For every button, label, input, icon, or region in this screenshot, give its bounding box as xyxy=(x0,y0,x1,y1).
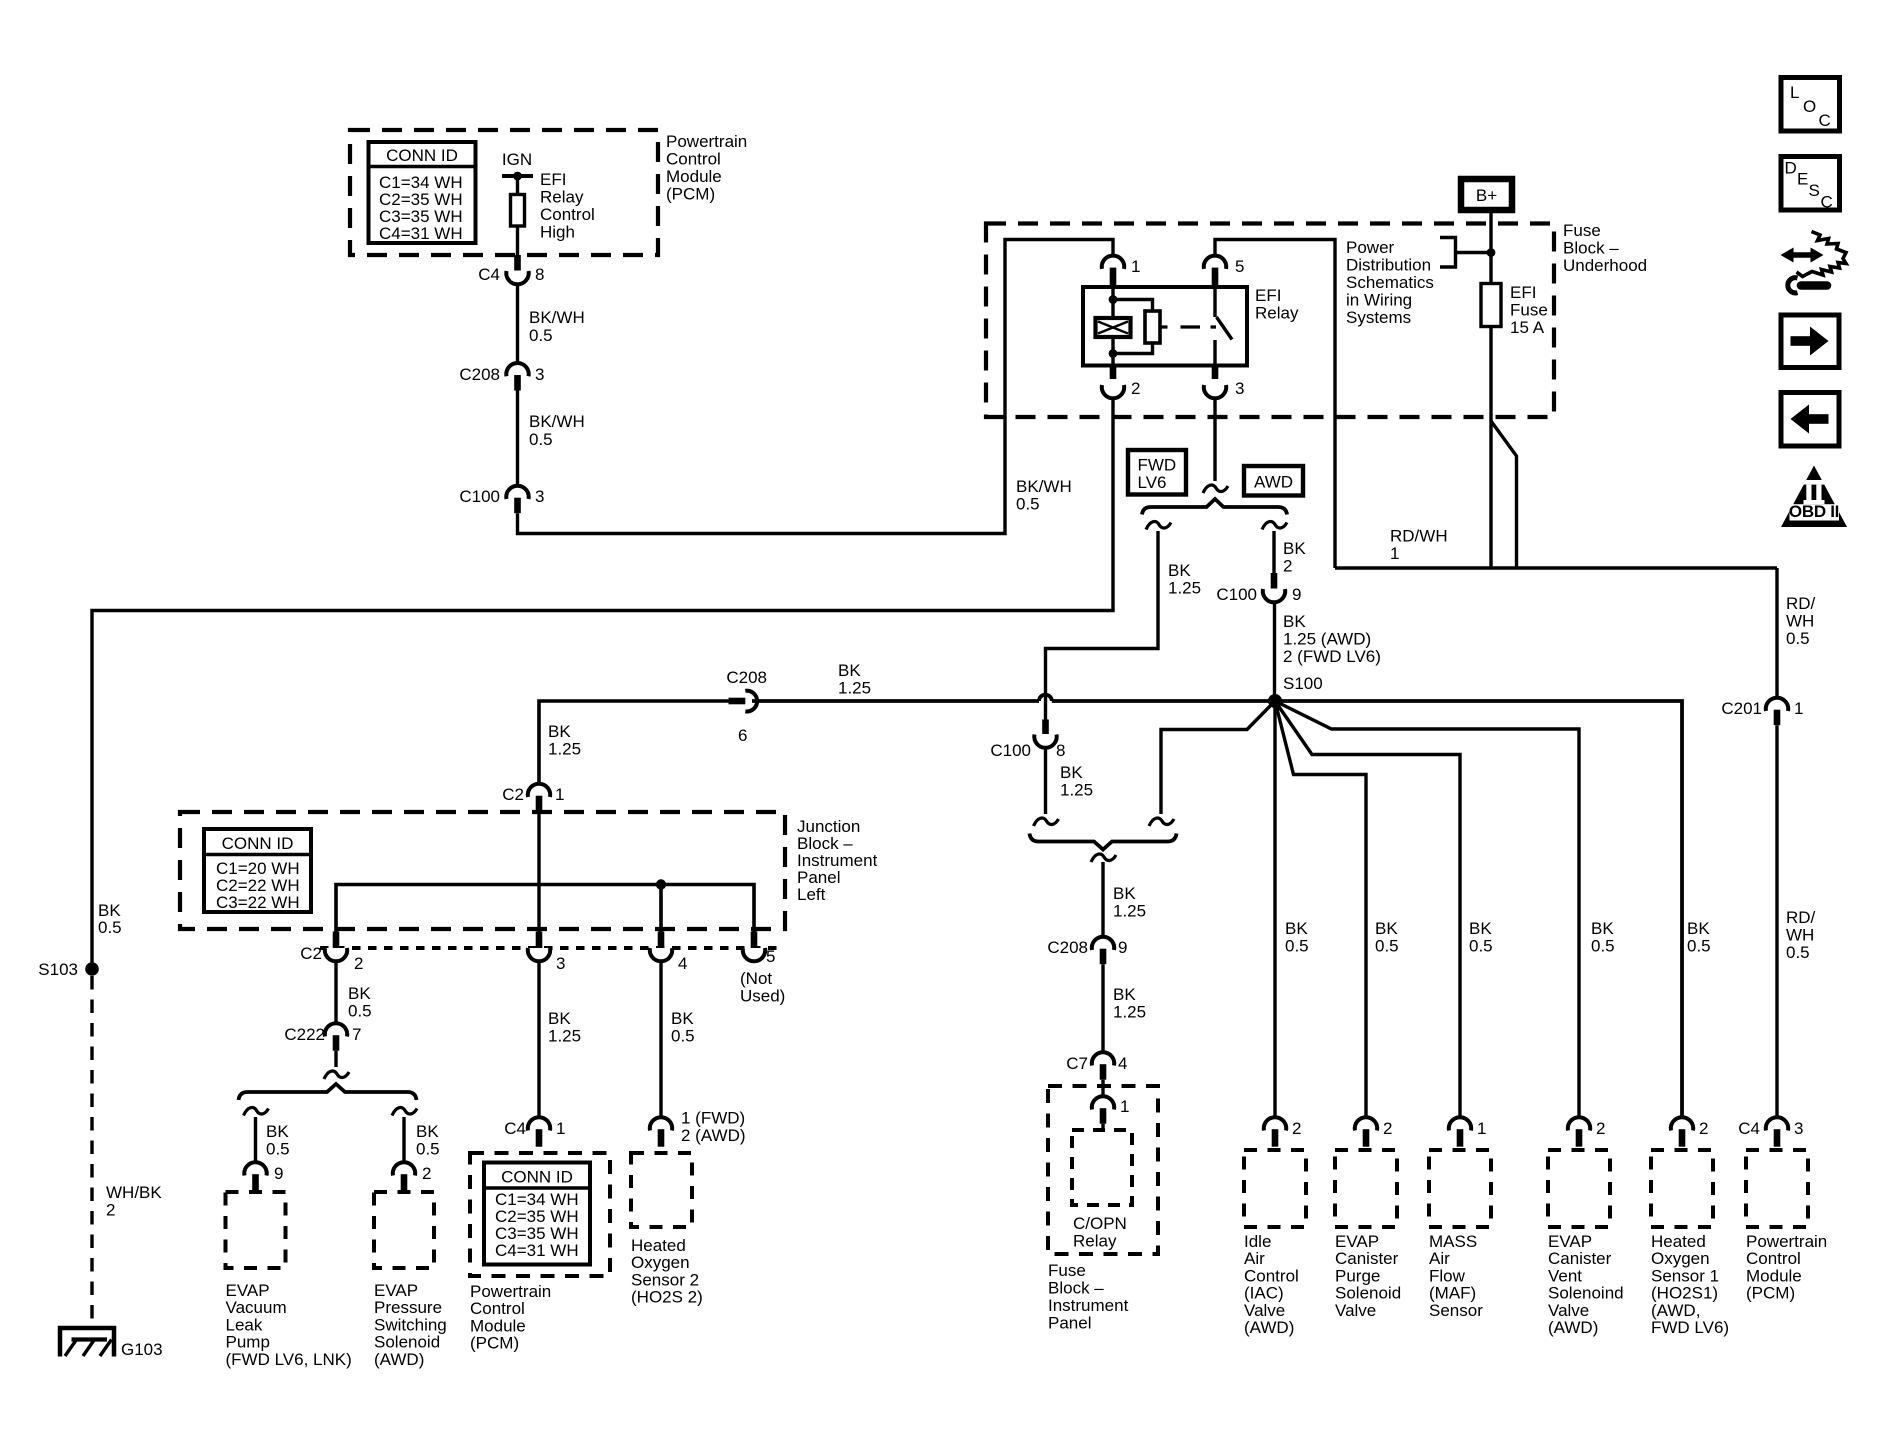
svg-text:Module: Module xyxy=(470,1316,526,1335)
svg-text:1.25: 1.25 xyxy=(838,679,871,698)
brace splitting C222 wire xyxy=(239,1084,417,1100)
svg-text:EVAP: EVAP xyxy=(1548,1232,1592,1251)
wire BK 0.5 (C2-2 to C222-7) xyxy=(336,961,372,1023)
connector C2 pin 5 (not used) xyxy=(740,947,785,1006)
brace merging to C208-9 xyxy=(1030,834,1177,850)
svg-text:Control: Control xyxy=(1244,1266,1299,1285)
svg-text:(HO2S1): (HO2S1) xyxy=(1651,1284,1718,1303)
svg-text:9: 9 xyxy=(1292,585,1301,604)
svg-text:0.5: 0.5 xyxy=(1687,937,1711,956)
svg-text:3: 3 xyxy=(556,954,565,973)
wire RD/WH 1 (fuse to relay pin 5) xyxy=(1215,240,1777,569)
svg-text:0.5: 0.5 xyxy=(1375,937,1399,956)
hook right EVAP branch xyxy=(392,1108,417,1116)
svg-text:(MAF): (MAF) xyxy=(1429,1284,1476,1303)
svg-text:C4: C4 xyxy=(478,265,500,284)
svg-text:S103: S103 xyxy=(38,960,78,979)
connector pin 2 (IAC) xyxy=(1264,1117,1302,1147)
connector C4 pin 8 xyxy=(478,255,544,284)
svg-text:Vacuum: Vacuum xyxy=(226,1298,287,1317)
svg-text:Idle: Idle xyxy=(1244,1232,1271,1251)
connector C201 pin 1 xyxy=(1721,698,1803,726)
svg-text:1: 1 xyxy=(556,1119,565,1138)
connector pin 2 (EVAP pressure) xyxy=(393,1162,432,1191)
wire BK 1.25 main bus (C208-6 to S100 to HO2S1) with hop over C100-8 drop xyxy=(752,695,1682,1118)
icon LOC button xyxy=(1781,78,1840,132)
icon OBD II badge xyxy=(1781,466,1847,528)
svg-text:L: L xyxy=(1790,83,1799,102)
svg-text:EFI: EFI xyxy=(1510,283,1536,302)
svg-text:(PCM): (PCM) xyxy=(666,185,715,204)
svg-text:Canister: Canister xyxy=(1548,1249,1612,1268)
svg-text:Panel: Panel xyxy=(1048,1314,1091,1333)
wire BK 2 (AWD branch to C100-9) xyxy=(1274,531,1306,576)
wire BK 1.25(AWD)/2(FWD LV6) to S100 xyxy=(1275,603,1381,702)
svg-text:1.25: 1.25 xyxy=(1113,1003,1146,1022)
connector C4 pin 1 (PCM) xyxy=(504,1117,565,1147)
svg-text:Leak: Leak xyxy=(226,1315,263,1334)
EVAP Canister Vent Solenoid Valve box xyxy=(1548,1150,1624,1337)
wire BK 0.5 (S100 to IAC valve) xyxy=(1273,701,1276,1117)
svg-text:Purge: Purge xyxy=(1335,1266,1380,1285)
svg-text:Air: Air xyxy=(1244,1249,1265,1268)
CONN ID table (PCM bottom) xyxy=(484,1163,590,1265)
connector C7 pin 4 xyxy=(1066,1052,1127,1080)
svg-text:FWD: FWD xyxy=(1138,456,1177,475)
svg-text:8: 8 xyxy=(1056,741,1065,760)
label RD/ WH 0.5 (upper) xyxy=(1786,594,1816,648)
connector C2 pin 4 xyxy=(650,948,688,973)
svg-text:1.25: 1.25 xyxy=(1168,579,1201,598)
wire RD/WH 0.5 (C201 to PCM C4-3) xyxy=(1777,725,1816,1117)
svg-text:Sensor 1: Sensor 1 xyxy=(1651,1266,1719,1285)
svg-text:C222: C222 xyxy=(284,1025,325,1044)
svg-text:2: 2 xyxy=(1283,557,1292,576)
wire into C/OPN relay xyxy=(1101,1124,1104,1130)
CONN ID table (junction block) xyxy=(204,829,311,912)
relay pin 2 connector xyxy=(1102,365,1141,398)
hook FWD branch xyxy=(1146,522,1171,530)
svg-text:1.25: 1.25 xyxy=(548,740,581,759)
label BK 0.5 (MAF wire) xyxy=(1469,919,1493,956)
svg-text:Control: Control xyxy=(470,1299,525,1318)
svg-text:Underhood: Underhood xyxy=(1563,256,1647,275)
svg-text:1.25: 1.25 xyxy=(1113,902,1146,921)
pin stub C2-4 xyxy=(658,932,665,949)
fuse EFI Fuse 15 A xyxy=(1481,283,1548,337)
wire BK 0.5 (C2-4 to HO2S2) xyxy=(661,961,695,1117)
svg-text:2: 2 xyxy=(1292,1119,1301,1138)
junction block bus xyxy=(336,885,754,933)
svg-text:Fuse: Fuse xyxy=(1510,301,1548,320)
svg-text:WH: WH xyxy=(1786,612,1814,631)
svg-text:BK: BK xyxy=(266,1122,289,1141)
label BK/WH 0.5 (relay pin1 wire) xyxy=(1016,477,1072,514)
svg-text:BK: BK xyxy=(1113,884,1136,903)
svg-text:9: 9 xyxy=(274,1164,283,1183)
Junction Block Instrument Panel Left box xyxy=(180,812,878,929)
connector C100 pin 3 xyxy=(459,486,544,514)
connector 1(FWD)/2(AWD) (HO2S2) xyxy=(650,1109,746,1147)
Heated Oxygen Sensor 2 box xyxy=(631,1153,703,1307)
svg-text:Heated: Heated xyxy=(631,1236,686,1255)
svg-text:2: 2 xyxy=(106,1201,115,1220)
wire BK/WH 0.5 (C208-3 to C100-3) xyxy=(518,391,585,486)
svg-text:0.5: 0.5 xyxy=(1786,629,1810,648)
svg-text:2 (FWD LV6): 2 (FWD LV6) xyxy=(1283,647,1381,666)
svg-text:5: 5 xyxy=(1235,257,1244,276)
svg-text:C4: C4 xyxy=(504,1119,526,1138)
svg-text:BK: BK xyxy=(1168,561,1191,580)
svg-text:E: E xyxy=(1797,170,1808,189)
svg-text:0.5: 0.5 xyxy=(1016,495,1040,514)
svg-text:(Not: (Not xyxy=(740,969,772,988)
svg-text:(IAC): (IAC) xyxy=(1244,1284,1284,1303)
svg-text:RD/: RD/ xyxy=(1786,908,1816,927)
svg-text:High: High xyxy=(540,223,575,242)
svg-text:(HO2S 2): (HO2S 2) xyxy=(631,1288,703,1307)
EVAP Canister Purge Solenoid Valve box xyxy=(1335,1150,1401,1320)
svg-text:0.5: 0.5 xyxy=(416,1140,440,1159)
svg-text:Relay: Relay xyxy=(1073,1232,1117,1251)
svg-text:15 A: 15 A xyxy=(1510,318,1545,337)
CONN ID table (PCM top) xyxy=(369,142,476,243)
connector C2 pin 1 xyxy=(502,784,564,812)
svg-text:6: 6 xyxy=(738,726,747,745)
RELAY-SECTION xyxy=(539,661,1827,1337)
MASS Air Flow sensor box xyxy=(1429,1150,1491,1320)
svg-text:B+: B+ xyxy=(1476,186,1497,205)
svg-text:Powertrain: Powertrain xyxy=(470,1282,551,1301)
icon forward arrow button xyxy=(1781,315,1839,368)
Powertrain Control Module box (bottom middle) xyxy=(470,1153,610,1276)
svg-text:(PCM): (PCM) xyxy=(1746,1284,1795,1303)
svg-text:Relay: Relay xyxy=(540,188,584,207)
ground G103 xyxy=(60,1328,163,1359)
svg-text:BK: BK xyxy=(548,722,571,741)
svg-text:Left: Left xyxy=(797,885,826,904)
splice S100 xyxy=(1268,674,1323,708)
svg-text:LV6: LV6 xyxy=(1138,473,1167,492)
svg-text:Solenoind: Solenoind xyxy=(1548,1284,1624,1303)
AWD tag box xyxy=(1244,466,1303,496)
brace splitting pin3 wire (FWD/AWD) xyxy=(1142,499,1287,515)
svg-text:(FWD LV6, LNK): (FWD LV6, LNK) xyxy=(226,1350,352,1369)
svg-text:O: O xyxy=(1803,97,1816,116)
svg-text:Switching: Switching xyxy=(374,1315,447,1334)
wire WH/BK 2 (S103 to G103, dashed) xyxy=(92,976,162,1330)
pin stub C2-3 xyxy=(536,932,543,949)
svg-text:Solenoid: Solenoid xyxy=(374,1333,440,1352)
svg-text:Block –: Block – xyxy=(1048,1279,1104,1298)
hook above brace xyxy=(324,1071,349,1079)
svg-text:S: S xyxy=(1809,181,1820,200)
connector C2 pin 3 xyxy=(528,948,566,973)
icon back arrow button xyxy=(1781,393,1839,447)
EVAP Pressure Switching Solenoid box xyxy=(374,1192,447,1369)
splice S103 xyxy=(38,960,99,979)
FWD LV6 tag box xyxy=(1128,450,1186,495)
wire BK 1.25 (C2-3 to PCM C4-1) xyxy=(539,961,581,1117)
svg-text:0.5: 0.5 xyxy=(1591,937,1615,956)
svg-text:0.5: 0.5 xyxy=(98,918,122,937)
svg-text:3: 3 xyxy=(1235,379,1244,398)
wire BK 0.5 (to EVAP pressure solenoid) xyxy=(404,1117,440,1162)
wire IGN to resistor xyxy=(516,176,519,195)
svg-text:EVAP: EVAP xyxy=(226,1281,270,1300)
svg-text:C4=31 WH: C4=31 WH xyxy=(379,224,463,243)
C/OPN Relay inner box xyxy=(1072,1130,1132,1251)
svg-text:C/OPN: C/OPN xyxy=(1073,1214,1127,1233)
svg-text:0.5: 0.5 xyxy=(348,1002,372,1021)
svg-text:BK: BK xyxy=(1113,985,1136,1004)
svg-text:C100: C100 xyxy=(1216,585,1257,604)
svg-text:C100: C100 xyxy=(990,741,1031,760)
svg-text:Distribution: Distribution xyxy=(1346,256,1431,275)
connector pin 2 (EVAP purge) xyxy=(1355,1117,1393,1147)
svg-text:(AWD): (AWD) xyxy=(1548,1318,1598,1337)
svg-text:Air: Air xyxy=(1429,1249,1450,1268)
svg-text:0.5: 0.5 xyxy=(529,430,553,449)
svg-text:MASS: MASS xyxy=(1429,1232,1477,1251)
label Powertrain Control Module (PCM) bottom xyxy=(470,1282,551,1353)
svg-text:0.5: 0.5 xyxy=(1469,937,1493,956)
svg-text:Used): Used) xyxy=(740,987,785,1006)
svg-text:Instrument: Instrument xyxy=(1048,1296,1129,1315)
svg-text:1.25 (AWD): 1.25 (AWD) xyxy=(1283,630,1371,649)
svg-text:Fuse: Fuse xyxy=(1048,1261,1086,1280)
svg-text:5: 5 xyxy=(766,947,775,966)
svg-text:1: 1 xyxy=(1120,1097,1129,1116)
Fuse Block Instrument Panel box xyxy=(1048,1086,1158,1254)
connector C222 pin 7 xyxy=(284,1023,361,1051)
svg-text:3: 3 xyxy=(535,487,544,506)
svg-text:(AWD,: (AWD, xyxy=(1651,1301,1700,1320)
EVAP Vacuum Leak Pump box xyxy=(226,1192,352,1369)
svg-text:FWD LV6): FWD LV6) xyxy=(1651,1318,1729,1337)
connector C100 pin 8 xyxy=(990,720,1065,761)
svg-text:C208: C208 xyxy=(459,365,500,384)
wire BK 0.5 (S100 to EVAP vent solenoid) xyxy=(1275,701,1579,1117)
svg-text:Sensor: Sensor xyxy=(1429,1301,1483,1320)
relay pin 5 connector xyxy=(1204,256,1245,288)
wire B+ to fuse xyxy=(1489,212,1492,284)
label BK 0.5 (vent wire) xyxy=(1591,919,1615,956)
svg-text:2 (AWD): 2 (AWD) xyxy=(681,1126,746,1145)
relay pin 1 connector xyxy=(1102,256,1141,288)
svg-text:1: 1 xyxy=(1390,544,1399,563)
svg-text:3: 3 xyxy=(1794,1119,1803,1138)
svg-text:4: 4 xyxy=(678,954,687,973)
connector pin 2 (HO2S1) xyxy=(1671,1117,1709,1147)
label Fuse Block Instrument Panel xyxy=(1048,1261,1129,1333)
connector face row (dotted) xyxy=(320,946,778,950)
Idle Air Control valve box xyxy=(1244,1150,1306,1337)
relay switch (internal) xyxy=(1215,287,1232,365)
svg-text:BK: BK xyxy=(1283,612,1306,631)
connector C100 pin 9 xyxy=(1216,573,1301,604)
icon DESC button xyxy=(1781,157,1840,212)
wire BK (S100 to lower brace right arm) xyxy=(1161,701,1275,814)
svg-text:0.5: 0.5 xyxy=(1285,937,1309,956)
svg-text:BK: BK xyxy=(1283,539,1306,558)
svg-text:0.5: 0.5 xyxy=(529,326,553,345)
svg-text:Powertrain: Powertrain xyxy=(666,132,747,151)
svg-text:Power: Power xyxy=(1346,238,1395,257)
wire BK (junction C2-1 corner to C208-6) xyxy=(539,701,729,784)
svg-text:EFI: EFI xyxy=(540,170,566,189)
label BK 0.5 (IAC wire) xyxy=(1285,919,1309,956)
junction dot at B+ feed xyxy=(1487,248,1496,257)
bracket to power distribution xyxy=(1440,238,1491,268)
connector pin 9 (EVAP pump) xyxy=(244,1162,283,1191)
label Powertrain Control Module (PCM) xyxy=(666,132,747,204)
svg-text:9: 9 xyxy=(1118,938,1127,957)
svg-text:C4: C4 xyxy=(1738,1119,1760,1138)
Heated Oxygen Sensor 1 box xyxy=(1651,1150,1729,1337)
connector pin 2 (EVAP vent) xyxy=(1568,1117,1606,1147)
connector C208 pin 6 (horizontal) xyxy=(726,668,767,745)
svg-text:BK: BK xyxy=(1285,919,1308,938)
label BK 0.5 (purge wire) xyxy=(1375,919,1399,956)
svg-text:Valve: Valve xyxy=(1335,1301,1376,1320)
svg-text:2: 2 xyxy=(422,1164,431,1183)
connector C2 pin 2 xyxy=(300,944,363,973)
svg-text:C4=31 WH: C4=31 WH xyxy=(495,1241,579,1260)
svg-text:RD/: RD/ xyxy=(1786,594,1816,613)
connector C208 pin 3 xyxy=(459,363,544,391)
icon schematic navigation (arrows and wrench) xyxy=(1781,232,1847,293)
wire BK/WH 0.5 (relay pin 2 to S103) xyxy=(92,399,1113,963)
label BK 1.25 (C2-1 riser) xyxy=(548,722,581,759)
svg-text:G103: G103 xyxy=(121,1340,163,1359)
svg-text:Fuse: Fuse xyxy=(1563,221,1601,240)
hook left EVAP branch xyxy=(244,1108,269,1116)
hook left arm xyxy=(1034,818,1059,826)
resistor EFI Relay Control High (inside PCM) xyxy=(511,195,525,227)
node IGN xyxy=(502,150,533,180)
EFI Relay box xyxy=(1083,286,1299,366)
svg-text:Systems: Systems xyxy=(1346,308,1411,327)
svg-text:BK: BK xyxy=(1469,919,1492,938)
svg-text:(AWD): (AWD) xyxy=(374,1350,424,1369)
svg-text:C3=22 WH: C3=22 WH xyxy=(216,893,300,912)
wire BK/WH 0.5 (C100-3 to EFI relay pin 1) xyxy=(518,240,1114,534)
svg-text:1.25: 1.25 xyxy=(548,1027,581,1046)
svg-text:BK: BK xyxy=(348,984,371,1003)
wire RD/WH 0.5 branch (fuse to C201) xyxy=(1491,421,1777,698)
svg-text:7: 7 xyxy=(352,1025,361,1044)
svg-text:0.5: 0.5 xyxy=(671,1027,695,1046)
hook at pin3 wire end xyxy=(1203,485,1228,493)
svg-text:C: C xyxy=(1821,193,1833,212)
svg-text:Vent: Vent xyxy=(1548,1266,1582,1285)
wire BK 1.25 (C100-8 to lower brace left arm) xyxy=(1046,748,1094,814)
svg-text:(PCM): (PCM) xyxy=(470,1334,519,1353)
svg-text:D: D xyxy=(1785,159,1797,178)
FAN-SECTION xyxy=(1781,78,1848,528)
wire BK 1.25 (brace to C208-9) xyxy=(1103,862,1146,937)
svg-text:Pump: Pump xyxy=(226,1333,270,1352)
svg-text:EFI: EFI xyxy=(1255,286,1281,305)
svg-text:Flow: Flow xyxy=(1429,1266,1466,1285)
hook right arm xyxy=(1149,818,1174,826)
svg-text:2: 2 xyxy=(1131,379,1140,398)
svg-text:C201: C201 xyxy=(1721,699,1762,718)
svg-text:1: 1 xyxy=(555,785,564,804)
svg-text:1.25: 1.25 xyxy=(1060,781,1093,800)
junction dot on bus xyxy=(656,879,666,889)
svg-text:Valve: Valve xyxy=(1548,1301,1589,1320)
svg-text:Block –: Block – xyxy=(1563,239,1619,258)
svg-text:in Wiring: in Wiring xyxy=(1346,291,1412,310)
svg-text:2: 2 xyxy=(354,954,363,973)
svg-text:Heated: Heated xyxy=(1651,1232,1706,1251)
svg-text:CONN ID: CONN ID xyxy=(386,146,458,165)
svg-text:(AWD): (AWD) xyxy=(1244,1318,1294,1337)
relay pin 3 connector xyxy=(1204,365,1245,398)
hook AWD branch xyxy=(1262,522,1287,530)
svg-text:BK/WH: BK/WH xyxy=(529,308,585,327)
svg-text:BK: BK xyxy=(1687,919,1710,938)
svg-text:IGN: IGN xyxy=(502,150,532,169)
svg-text:WH: WH xyxy=(1786,926,1814,945)
svg-text:2: 2 xyxy=(1596,1119,1605,1138)
wire BK 1.25 (FWD branch to C100-8) xyxy=(1046,531,1202,720)
svg-text:8: 8 xyxy=(535,265,544,284)
wire relay pin 3 down xyxy=(1213,399,1216,482)
svg-text:BK: BK xyxy=(671,1009,694,1028)
wire BK 0.5 (S100 to EVAP purge solenoid) xyxy=(1275,701,1366,1117)
svg-text:2: 2 xyxy=(1383,1119,1392,1138)
svg-text:AWD: AWD xyxy=(1254,473,1293,492)
svg-text:C208: C208 xyxy=(1047,938,1088,957)
svg-text:C2: C2 xyxy=(300,944,322,963)
PCM-TOP-SECTION xyxy=(180,784,878,1369)
svg-text:1: 1 xyxy=(1131,257,1140,276)
connector C208 pin 9 xyxy=(1047,937,1127,965)
wire C7-4 into fuse block IP xyxy=(1101,1080,1104,1097)
svg-text:C7: C7 xyxy=(1066,1054,1088,1073)
svg-text:RD/WH: RD/WH xyxy=(1390,527,1448,546)
svg-text:4: 4 xyxy=(1118,1054,1127,1073)
label BK 0.5 (HO2S1 wire) xyxy=(1687,919,1711,956)
svg-text:CONN ID: CONN ID xyxy=(501,1168,573,1187)
hook below brace xyxy=(1091,854,1116,862)
svg-text:Oxygen: Oxygen xyxy=(631,1253,690,1272)
label BK 1.25 (main ground bus) xyxy=(838,661,871,698)
connector C4 pin 3 (PCM) xyxy=(1738,1117,1803,1147)
wire BK 0.5 (S100 to MAF sensor) xyxy=(1275,701,1460,1117)
svg-text:EVAP: EVAP xyxy=(1335,1232,1379,1251)
wire resistor to C4 pin 8 xyxy=(516,226,519,256)
svg-text:2: 2 xyxy=(1699,1119,1708,1138)
svg-text:BK: BK xyxy=(416,1122,439,1141)
svg-text:BK: BK xyxy=(1375,919,1398,938)
svg-text:OBD II: OBD II xyxy=(1789,502,1839,521)
svg-text:1: 1 xyxy=(1477,1119,1486,1138)
wire BK/WH 0.5 (C4-8 to C208-3) xyxy=(518,285,585,364)
svg-text:BK: BK xyxy=(548,1009,571,1028)
svg-text:Control: Control xyxy=(1746,1249,1801,1268)
svg-text:1: 1 xyxy=(1794,699,1803,718)
svg-text:BK/WH: BK/WH xyxy=(1016,477,1072,496)
svg-text:Control: Control xyxy=(540,205,595,224)
svg-text:0.5: 0.5 xyxy=(266,1140,290,1159)
svg-text:1 (FWD): 1 (FWD) xyxy=(681,1109,745,1128)
svg-text:CONN ID: CONN ID xyxy=(222,834,294,853)
wire BK 0.5 (to EVAP vacuum leak pump) xyxy=(256,1117,290,1162)
